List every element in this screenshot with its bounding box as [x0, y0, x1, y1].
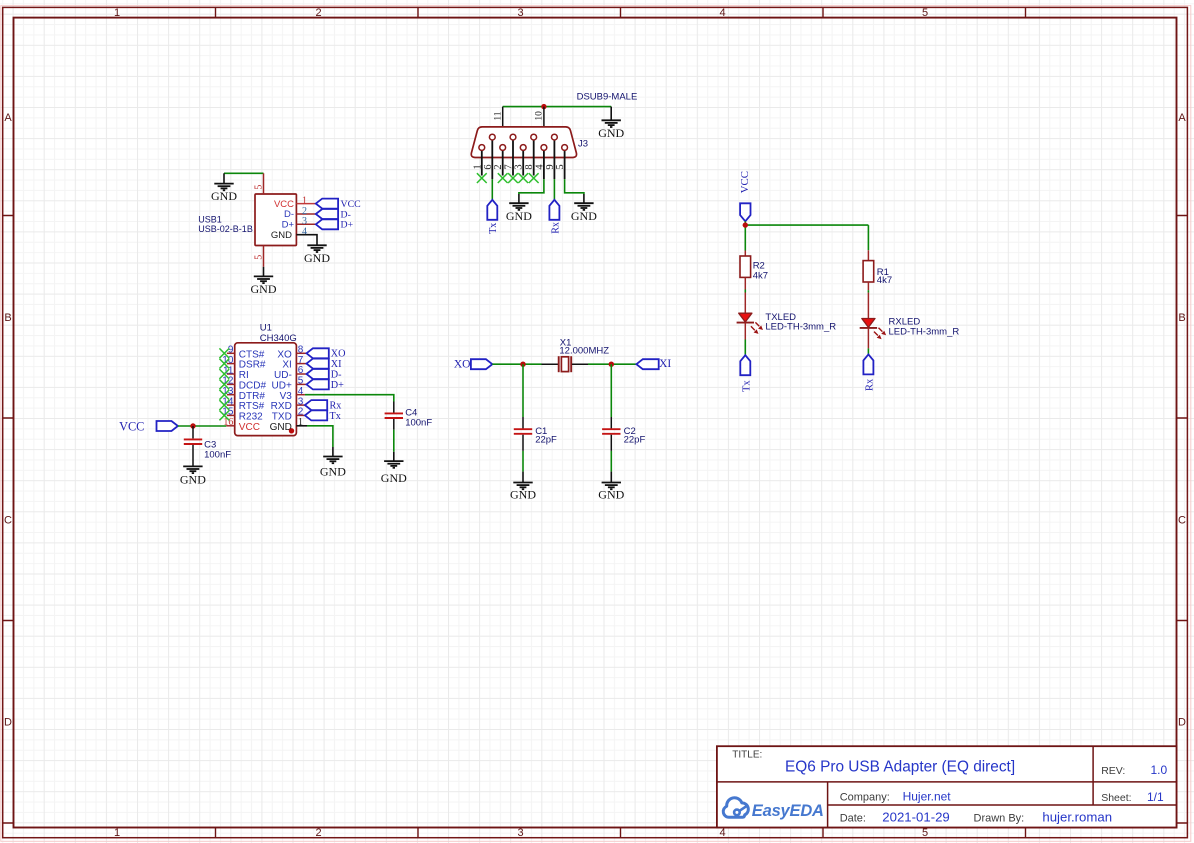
no-connect pin 7 — [508, 173, 518, 183]
svg-text:3: 3 — [517, 7, 523, 19]
wire C4 to ground — [393, 430, 395, 452]
svg-text:REV:: REV: — [1101, 765, 1125, 777]
svg-text:2021-01-29: 2021-01-29 — [882, 810, 949, 825]
wire top — [503, 106, 612, 108]
svg-text:D: D — [4, 717, 12, 729]
svg-text:100nF: 100nF — [204, 450, 231, 461]
svg-text:6: 6 — [483, 164, 494, 169]
svg-text:1: 1 — [302, 195, 307, 206]
wire pin4 to ground — [296, 235, 317, 246]
svg-text:GND: GND — [320, 465, 346, 479]
svg-text:V3: V3 — [280, 391, 293, 402]
svg-text:4: 4 — [534, 164, 545, 170]
no-connect pin 3 — [518, 173, 528, 183]
svg-text:2: 2 — [315, 827, 321, 839]
svg-text:TITLE:: TITLE: — [732, 750, 762, 761]
wire VCC rail — [745, 221, 868, 250]
ground — [251, 267, 277, 296]
no-connect pin 12 — [219, 380, 229, 390]
no-connect pin 10 — [219, 359, 229, 369]
wire C2 to ground — [610, 451, 612, 472]
svg-text:DSR#: DSR# — [239, 360, 266, 371]
net flag VCC — [316, 199, 361, 210]
net flag XI — [636, 358, 671, 370]
net flag Rx — [549, 200, 561, 234]
svg-text:Drawn By:: Drawn By: — [974, 813, 1025, 825]
svg-text:5: 5 — [922, 827, 928, 839]
svg-text:100nF: 100nF — [405, 418, 432, 429]
svg-text:5: 5 — [922, 7, 928, 19]
ground — [571, 194, 597, 223]
svg-text:GND: GND — [381, 471, 407, 485]
svg-text:7: 7 — [298, 355, 304, 366]
crystal lead left — [542, 363, 559, 365]
junction — [609, 362, 614, 367]
net flag Rx — [305, 400, 341, 411]
svg-text:B: B — [4, 312, 11, 324]
svg-text:GND: GND — [598, 126, 624, 140]
svg-text:4: 4 — [298, 386, 304, 397]
svg-text:VCC: VCC — [239, 422, 260, 433]
no-connect pin 11 — [219, 369, 229, 379]
svg-text:TXD: TXD — [272, 412, 292, 423]
svg-text:GND: GND — [506, 209, 532, 223]
svg-text:Tx: Tx — [330, 411, 341, 422]
svg-text:A: A — [4, 112, 12, 124]
svg-text:VCC: VCC — [341, 199, 361, 210]
svg-text:3: 3 — [514, 164, 525, 169]
junction — [520, 362, 525, 367]
svg-text:C: C — [4, 515, 12, 527]
svg-text:GND: GND — [598, 487, 624, 501]
svg-text:VCC: VCC — [739, 171, 751, 193]
net flag XO — [307, 348, 346, 359]
resistor R2 — [740, 251, 768, 290]
svg-text:GND: GND — [180, 473, 206, 487]
svg-text:XI: XI — [659, 358, 671, 370]
svg-text:3: 3 — [302, 216, 307, 227]
svg-text:GND: GND — [211, 189, 237, 203]
svg-text:Sheet:: Sheet: — [1101, 792, 1131, 804]
svg-text:GND: GND — [271, 230, 292, 241]
svg-text:DTR#: DTR# — [239, 391, 266, 402]
svg-text:6: 6 — [298, 365, 304, 376]
wire R2 to LED — [744, 290, 746, 293]
svg-text:R232: R232 — [239, 412, 263, 423]
wire pin5 to ground — [565, 179, 584, 194]
svg-text:1.0: 1.0 — [1151, 763, 1168, 777]
title block — [717, 746, 1177, 827]
svg-text:5: 5 — [254, 255, 265, 260]
capacitor C4 — [385, 402, 433, 430]
wire R1 to LED — [867, 290, 869, 292]
net flag D+ — [316, 219, 354, 230]
wire — [224, 172, 264, 174]
svg-text:1/1: 1/1 — [1147, 790, 1164, 804]
wire pin9 to Rx — [553, 179, 555, 200]
svg-text:C: C — [1178, 515, 1186, 527]
junction — [743, 222, 748, 227]
svg-text:2: 2 — [298, 407, 304, 418]
wire pin6 to Tx — [491, 179, 493, 200]
connector J3 DSUB9-MALE — [471, 92, 637, 180]
svg-text:GND: GND — [270, 422, 292, 433]
wire LED to Tx — [744, 340, 746, 356]
net flag Tx — [305, 410, 341, 421]
svg-text:USB-02-B-1B: USB-02-B-1B — [198, 224, 253, 234]
svg-text:2: 2 — [315, 7, 321, 19]
svg-text:4k7: 4k7 — [753, 270, 768, 281]
svg-text:GND: GND — [571, 209, 597, 223]
svg-text:GND: GND — [510, 487, 536, 501]
no-connect pin 15 — [219, 411, 229, 421]
no-connect pin 8 — [529, 173, 539, 183]
svg-text:GND: GND — [251, 282, 277, 296]
net flag D+ — [307, 379, 345, 390]
EasyEDA logo — [723, 798, 748, 818]
no-connect pin 9 — [219, 348, 229, 358]
svg-text:D+: D+ — [282, 220, 295, 231]
capacitor C3 — [184, 426, 231, 466]
svg-text:D+: D+ — [341, 220, 354, 231]
svg-text:1: 1 — [472, 164, 483, 169]
wire LED to Rx — [867, 348, 869, 354]
svg-text:4: 4 — [719, 827, 725, 839]
svg-text:hujer.roman: hujer.roman — [1042, 810, 1112, 825]
net flag XI — [307, 359, 343, 370]
ground — [381, 452, 407, 485]
svg-text:10: 10 — [535, 111, 545, 121]
net flag Tx — [740, 355, 752, 392]
net flag Tx — [487, 200, 499, 234]
IC U1 CH340G — [222, 323, 306, 436]
crystal X1 — [559, 337, 610, 372]
svg-text:EasyEDA: EasyEDA — [752, 802, 824, 820]
svg-text:UD-: UD- — [274, 370, 292, 381]
ground — [320, 447, 346, 479]
svg-text:XI: XI — [331, 359, 342, 370]
junction — [289, 428, 294, 433]
svg-text:4k7: 4k7 — [877, 275, 892, 286]
svg-text:A: A — [1178, 112, 1186, 124]
svg-text:B: B — [1178, 312, 1185, 324]
wire VCC to U1 — [178, 425, 226, 427]
svg-text:EQ6 Pro USB Adapter (EQ direct: EQ6 Pro USB Adapter (EQ direct] — [785, 759, 1015, 776]
svg-text:D+: D+ — [331, 380, 344, 391]
LED TXLED — [737, 293, 837, 340]
svg-text:GND: GND — [304, 251, 330, 265]
wire GND pin to ground — [296, 425, 307, 427]
no-connect pin 2 — [498, 173, 508, 183]
ground — [510, 472, 536, 502]
net flag VCC top — [739, 171, 751, 221]
net flag XO — [454, 359, 492, 371]
svg-text:VCC: VCC — [119, 420, 144, 434]
svg-text:XI: XI — [282, 360, 291, 371]
connector USB1 — [198, 173, 315, 266]
LED RXLED — [860, 293, 960, 349]
svg-text:1: 1 — [114, 827, 120, 839]
svg-text:4: 4 — [719, 7, 725, 19]
junction — [190, 423, 195, 428]
crystal lead right — [572, 363, 588, 365]
svg-text:XO: XO — [454, 359, 471, 371]
capacitor C2 — [602, 417, 645, 451]
ground — [598, 472, 624, 502]
wire to C2 — [610, 364, 612, 417]
svg-text:22pF: 22pF — [535, 434, 557, 445]
net flag D- — [316, 209, 351, 220]
ground — [180, 466, 206, 486]
svg-text:4: 4 — [302, 227, 307, 238]
svg-text:5: 5 — [555, 164, 566, 169]
svg-text:D-: D- — [284, 209, 294, 220]
svg-text:USB1: USB1 — [198, 214, 222, 224]
svg-text:RI: RI — [239, 370, 249, 381]
wire V3 to C4 — [305, 395, 394, 402]
svg-text:U1: U1 — [260, 323, 272, 334]
ground — [304, 245, 330, 264]
svg-text:DSUB9-MALE: DSUB9-MALE — [577, 92, 638, 103]
svg-text:LED-TH-3mm_R: LED-TH-3mm_R — [765, 322, 836, 333]
svg-text:3: 3 — [517, 827, 523, 839]
no-connect pin 14 — [219, 400, 229, 410]
svg-text:Rx: Rx — [550, 222, 561, 234]
svg-text:12.000MHZ: 12.000MHZ — [559, 345, 609, 356]
svg-text:Rx: Rx — [865, 378, 876, 391]
resistor R1 — [863, 250, 892, 290]
svg-text:CH340G: CH340G — [260, 333, 297, 344]
net flag Rx — [863, 354, 875, 391]
no-connect pin 13 — [219, 390, 229, 400]
svg-text:Hujer.net: Hujer.net — [903, 790, 952, 804]
ground — [211, 173, 237, 203]
svg-text:5: 5 — [254, 185, 265, 190]
ground — [598, 107, 624, 140]
wire to C1 — [522, 364, 524, 417]
wire XO to crystal — [492, 363, 541, 365]
wire crystal to XI — [588, 363, 636, 365]
svg-text:22pF: 22pF — [624, 434, 646, 445]
no-connect pin 1 — [477, 173, 487, 183]
svg-text:11: 11 — [494, 111, 504, 120]
svg-text:Tx: Tx — [741, 380, 752, 392]
svg-text:D: D — [1178, 717, 1186, 729]
wire C1 to ground — [522, 451, 524, 472]
wire pin4 to ground — [519, 179, 544, 194]
svg-text:1: 1 — [114, 7, 120, 19]
svg-text:Date:: Date: — [840, 813, 866, 825]
svg-text:LED-TH-3mm_R: LED-TH-3mm_R — [889, 326, 960, 337]
svg-text:Tx: Tx — [488, 223, 499, 234]
junction — [541, 104, 546, 109]
svg-text:J3: J3 — [578, 138, 588, 149]
capacitor C1 — [514, 417, 557, 451]
svg-text:Company:: Company: — [840, 792, 890, 804]
net flag VCC left — [119, 420, 178, 434]
svg-text:D-: D- — [331, 369, 342, 380]
ground — [506, 194, 532, 223]
net flag D- — [307, 369, 343, 380]
